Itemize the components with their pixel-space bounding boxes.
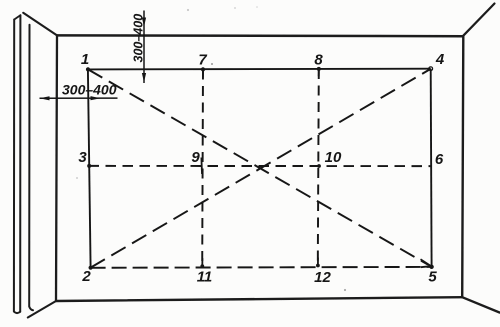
speckle xyxy=(211,63,213,65)
svg-text:4: 4 xyxy=(435,51,445,68)
point 8 xyxy=(317,67,321,71)
floor edge bottom-right diagonal xyxy=(462,297,499,312)
svg-text:1: 1 xyxy=(81,51,89,68)
tick above point 12 xyxy=(317,258,319,266)
rectangle bottom dashed edge 2-5 xyxy=(91,266,432,269)
right wall vertical xyxy=(462,36,463,297)
wall plank left outer line xyxy=(13,20,15,312)
left wall corner vertical xyxy=(56,35,57,301)
rectangle right edge 4-5 xyxy=(430,69,433,267)
arrowhead at point 5 xyxy=(421,259,431,267)
speckle xyxy=(344,289,346,291)
speckle xyxy=(234,7,236,9)
ceiling edge top-left diagonal xyxy=(23,13,57,36)
ceiling top wall line xyxy=(57,34,463,37)
wall plank top cap xyxy=(14,15,20,19)
point 4 open circle xyxy=(429,67,433,71)
point 11 xyxy=(200,264,204,268)
point 10 xyxy=(317,164,321,168)
horizontal dimension right arrowhead xyxy=(91,96,101,100)
wall plank right line xyxy=(29,25,33,310)
vertical dimension upper arrowhead xyxy=(142,18,146,28)
speckle xyxy=(76,177,78,179)
svg-text:3: 3 xyxy=(78,149,87,166)
vertical dimension line xyxy=(143,11,145,84)
speckle xyxy=(256,6,258,8)
wall plank left inner line xyxy=(19,15,21,312)
svg-text:6: 6 xyxy=(435,151,444,168)
svg-text:7: 7 xyxy=(198,52,207,69)
point 12 xyxy=(316,264,320,268)
horizontal dimension left arrowhead xyxy=(40,96,50,100)
dashed vertical line 8-12 xyxy=(318,69,319,266)
svg-text:300–400: 300–400 xyxy=(131,14,145,63)
point 2 xyxy=(89,266,93,270)
svg-text:5: 5 xyxy=(428,269,437,286)
dashed diagonal 1-5 xyxy=(88,69,428,264)
svg-text:11: 11 xyxy=(197,269,213,286)
wall plank bottom curve xyxy=(14,312,20,314)
tick below point 7 xyxy=(202,70,204,77)
point 1 xyxy=(86,67,90,71)
floor line xyxy=(56,297,462,301)
vertical dimension lower arrowhead xyxy=(142,73,146,83)
svg-text:2: 2 xyxy=(81,268,91,285)
rectangle left edge 1-2 xyxy=(88,69,91,267)
svg-text:10: 10 xyxy=(325,149,342,166)
dashed vertical line 7-11 xyxy=(201,70,204,267)
svg-text:9: 9 xyxy=(191,149,200,166)
svg-text:12: 12 xyxy=(314,269,331,286)
dashed diagonal 2-4 xyxy=(91,69,431,268)
point 3 xyxy=(87,164,91,168)
tick below point 8 xyxy=(318,69,320,76)
tick above point 11 xyxy=(201,259,203,267)
speckle xyxy=(187,9,189,11)
horizontal dimension line xyxy=(40,97,118,99)
dashed horizontal line 3-6 xyxy=(89,165,432,167)
svg-text:300–400: 300–400 xyxy=(62,82,117,98)
point 5 xyxy=(429,265,433,269)
point 7 xyxy=(201,67,205,71)
point 9 cross tick xyxy=(200,158,203,175)
ceiling edge top-right diagonal xyxy=(463,4,495,37)
svg-text:8: 8 xyxy=(314,52,323,69)
floor edge bottom-left diagonal xyxy=(28,301,56,318)
rectangle top edge 1-4 xyxy=(88,68,431,71)
